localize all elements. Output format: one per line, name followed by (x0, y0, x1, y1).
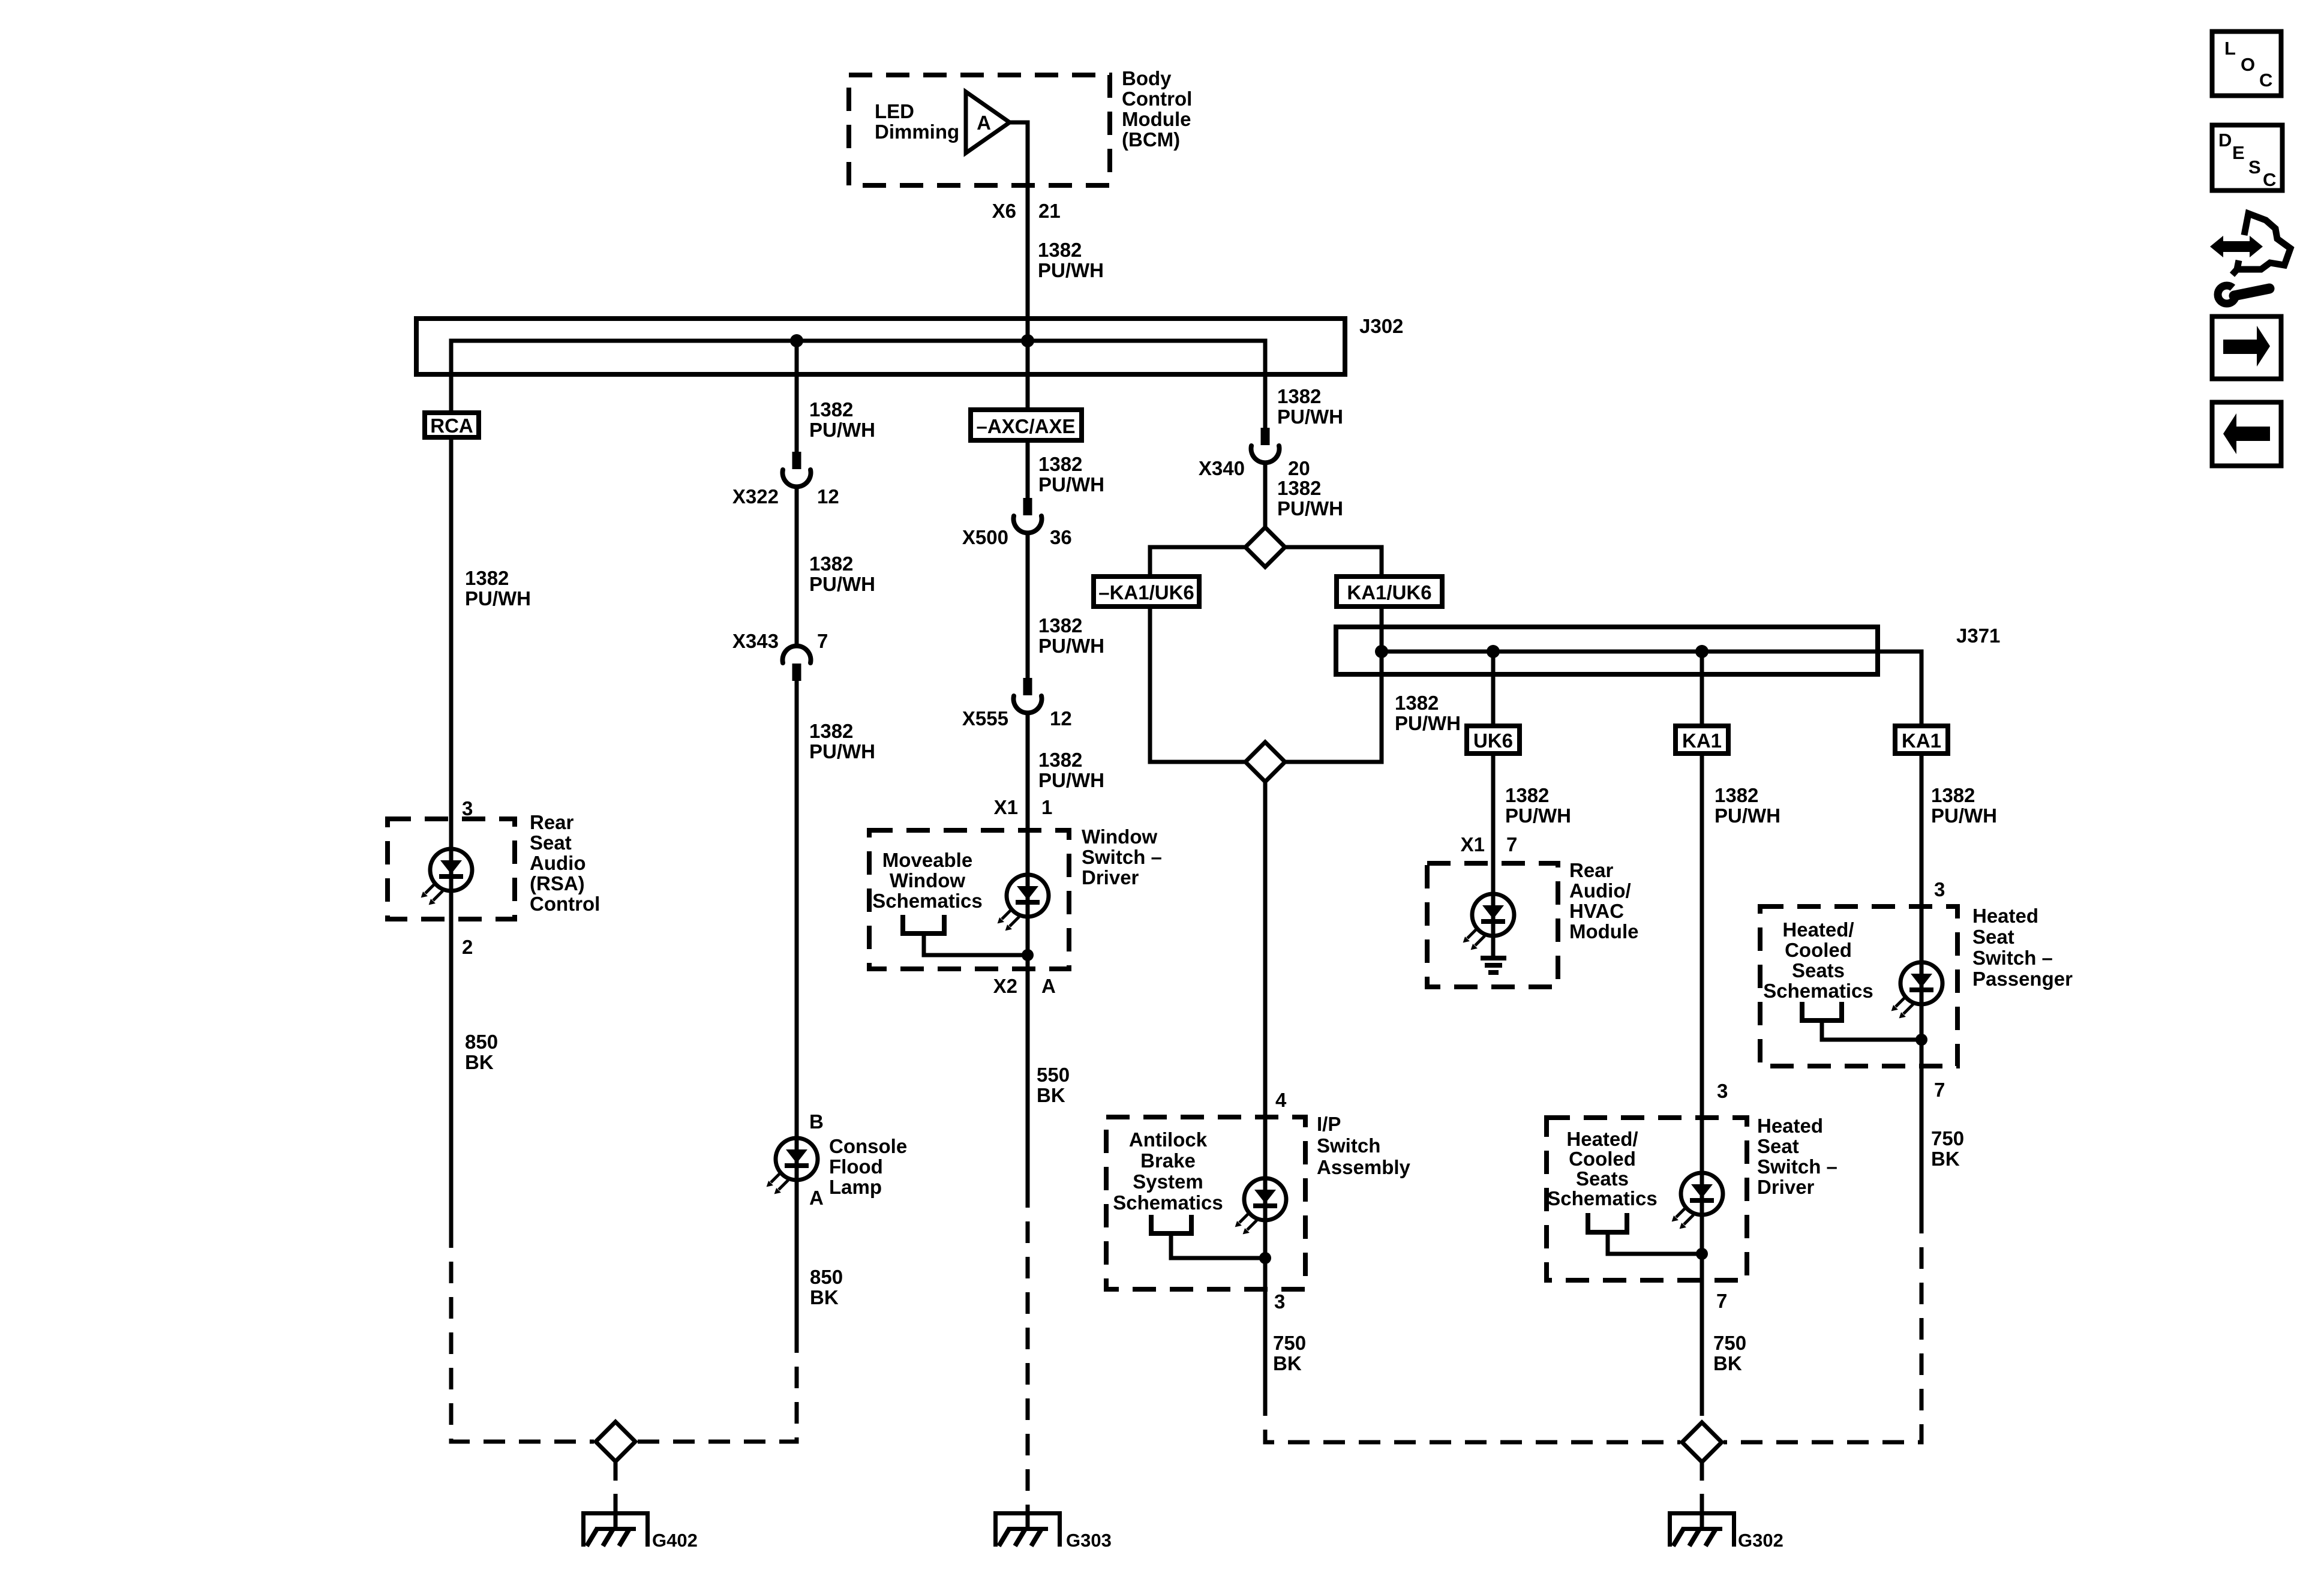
junction node on J302 bus (1021, 334, 1034, 347)
svg-text:G402: G402 (652, 1530, 698, 1551)
wire lower splice to IP switch (1263, 782, 1268, 1178)
hotline repair icon connector outline (2232, 214, 2290, 275)
svg-text:J371: J371 (1956, 625, 2000, 647)
antilock brake system schematics dashed box (1106, 1117, 1305, 1289)
back navigation arrow box (2212, 403, 2281, 466)
svg-text:KA1: KA1 (1902, 730, 1941, 752)
internal chassis ground (1481, 956, 1506, 960)
svg-text:3: 3 (462, 797, 473, 819)
hotline repair icon double arrow (2210, 236, 2263, 257)
bracket wire to LED cathode (1822, 1020, 1921, 1040)
harness tag RCA (425, 413, 479, 437)
body control module BCM dashed box (849, 75, 1110, 185)
connector X322 (783, 452, 811, 487)
wire splice to -KA1/UK6 tag (1150, 547, 1246, 574)
forward navigation arrow box (2212, 317, 2281, 379)
J302 internal bus wire (451, 341, 1265, 428)
svg-text:21: 21 (1038, 200, 1061, 222)
svg-text:12: 12 (817, 485, 839, 508)
svg-text:3: 3 (1717, 1080, 1728, 1102)
LED indicator heated seat driver (1672, 1173, 1723, 1229)
svg-text:B: B (809, 1110, 824, 1133)
junction node (1915, 1034, 1927, 1046)
svg-text:A: A (1041, 975, 1056, 997)
wire below RSA (449, 891, 454, 1226)
junction node (1259, 1252, 1271, 1264)
harness tag -AXC/AXE (971, 410, 1082, 440)
wire J302 to X322 (795, 341, 799, 452)
svg-text:O: O (2241, 54, 2255, 75)
LED indicator heated seat passenger (1891, 962, 1942, 1018)
wire X500 to X555 (1026, 533, 1030, 678)
svg-text:A: A (809, 1187, 824, 1209)
svg-text:X322: X322 (732, 485, 779, 508)
svg-text:KA1: KA1 (1682, 730, 1722, 752)
svg-text:C: C (2263, 169, 2276, 190)
heated cooled seats schematics dashed box passenger (1760, 906, 1957, 1066)
schematic reference bracket (1588, 1213, 1627, 1232)
svg-text:7: 7 (1506, 833, 1517, 855)
harness tag KA1/UK6 (1337, 577, 1442, 607)
svg-text:X2: X2 (993, 975, 1017, 997)
svg-text:850BK: 850BK (810, 1266, 843, 1308)
svg-text:L: L (2224, 38, 2236, 59)
DESC navigation box (2212, 125, 2283, 191)
splice pack J371 box (1336, 627, 1878, 674)
svg-text:RCA: RCA (430, 415, 473, 437)
wire KA1 tag to heated seat switch passenger (1920, 756, 1924, 962)
connector X555 (1014, 678, 1042, 713)
svg-text:C: C (2259, 70, 2272, 91)
ground G302 (1668, 1511, 1736, 1547)
connector X500 (1014, 498, 1042, 533)
LOC navigation box (2212, 32, 2281, 96)
op-amp buffer A (LED dimming driver) (966, 92, 1010, 153)
svg-text:D: D (2218, 130, 2232, 151)
splice pack J302 box (416, 319, 1345, 374)
svg-text:UK6: UK6 (1473, 730, 1513, 752)
harness tag UK6 (1467, 726, 1520, 754)
LED indicator window switch (998, 875, 1049, 930)
bracket wire to LED cathode (924, 933, 1028, 955)
wire -KA1/UK6 tag to lower splice (1150, 609, 1246, 762)
harness tag KA1 (1676, 726, 1728, 754)
svg-text:X340: X340 (1199, 457, 1245, 479)
LED indicator IP switch (1235, 1178, 1286, 1234)
svg-text:20: 20 (1288, 457, 1310, 479)
dashed ground wire to G302 splice (1265, 1394, 1680, 1442)
wire splice to KA1/UK6 tag (1284, 547, 1382, 574)
dashed ground wire to G402 splice (637, 1331, 797, 1442)
svg-text:3: 3 (1934, 878, 1945, 900)
hotline repair icon wrench (2218, 286, 2236, 304)
svg-text:7: 7 (817, 630, 828, 652)
wire J371 to UK6 tag (1491, 652, 1496, 724)
wire X555 to window switch (1026, 713, 1030, 875)
svg-text:G302: G302 (1738, 1530, 1783, 1551)
console flood lamp LED (767, 1138, 818, 1194)
wire J302 to AXC tag (1026, 341, 1030, 407)
harness tag KA1 passenger (1895, 726, 1948, 754)
harness tag -KA1/UK6 (1094, 577, 1199, 607)
svg-text:J302: J302 (1359, 315, 1403, 337)
wire X343 to console flood lamp (795, 681, 799, 1138)
dashed wire to G302 splice (1724, 1212, 1921, 1442)
wire X322 to X343 (795, 487, 799, 646)
wire heated seat driver down (1700, 1214, 1704, 1394)
svg-text:A: A (977, 112, 991, 134)
svg-text:1: 1 (1041, 796, 1052, 818)
svg-text:7: 7 (1934, 1079, 1945, 1101)
splice diamond lower (1245, 742, 1285, 782)
svg-text:G303: G303 (1066, 1530, 1112, 1551)
wire splice to ground G402 (614, 1461, 618, 1512)
svg-text:750BK: 750BK (1273, 1332, 1306, 1374)
svg-text:X1: X1 (994, 796, 1018, 818)
wire LED to internal ground (1491, 935, 1496, 956)
dashed wire to G302 splice (1700, 1394, 1704, 1422)
junction node on J371 bus (1695, 645, 1709, 658)
svg-text:–AXC/AXE: –AXC/AXE (976, 415, 1075, 437)
svg-text:E: E (2232, 142, 2245, 163)
svg-text:850BK: 850BK (465, 1031, 498, 1073)
wire RCA down (449, 440, 454, 849)
svg-text:2: 2 (462, 936, 473, 958)
junction node (1022, 949, 1034, 961)
connector X340 (1251, 428, 1280, 463)
svg-text:S: S (2248, 157, 2261, 178)
bracket wire to LED cathode (1171, 1233, 1265, 1258)
wire J371 to KA1 tag (1700, 652, 1704, 724)
svg-text:550BK: 550BK (1037, 1064, 1070, 1106)
LED indicator RSA (421, 849, 472, 905)
ground G402 (581, 1511, 650, 1547)
rear audio HVAC module dashed box (1427, 863, 1558, 987)
hotline repair icon connector stub (2237, 260, 2239, 269)
svg-text:X6: X6 (992, 200, 1016, 222)
wire IP switch down (1263, 1220, 1268, 1394)
splice diamond upper (1245, 527, 1285, 567)
connector X343 (783, 646, 811, 681)
svg-text:X500: X500 (962, 526, 1008, 548)
svg-text:3: 3 (1274, 1290, 1285, 1313)
wire UK6 tag to rear audio module (1491, 756, 1496, 894)
svg-text:12: 12 (1050, 707, 1072, 730)
wire heated seat passenger down (1920, 1004, 1924, 1212)
svg-text:750BK: 750BK (1713, 1332, 1746, 1374)
svg-text:7: 7 (1716, 1290, 1727, 1312)
svg-text:–KA1/UK6: –KA1/UK6 (1098, 581, 1194, 604)
wire below console flood lamp (795, 1180, 799, 1331)
wire tag to X500 (1026, 443, 1030, 498)
schematic reference bracket (1151, 1215, 1191, 1233)
wire KA1/UK6 tag through J371 to lower splice (1284, 609, 1382, 762)
splice diamond G402 (596, 1422, 635, 1461)
splice diamond G302 (1682, 1422, 1722, 1462)
LED indicator rear audio module (1463, 894, 1514, 950)
dashed ground wire to G303 (1026, 1186, 1030, 1512)
svg-text:X343: X343 (732, 630, 779, 652)
dashed ground wire to G402 splice (451, 1226, 594, 1442)
wire LED down through box (1026, 916, 1030, 1186)
bracket wire to LED cathode (1608, 1232, 1702, 1254)
wire X340 to splice diamond (1263, 463, 1268, 528)
junction node on J371 bus (1375, 645, 1388, 658)
svg-text:750BK: 750BK (1931, 1127, 1964, 1170)
window switch driver dashed box (869, 830, 1069, 969)
heated cooled seats schematics dashed box driver (1547, 1118, 1747, 1280)
svg-text:X1: X1 (1461, 833, 1485, 855)
schematic reference bracket (1802, 1002, 1842, 1020)
junction node (1696, 1248, 1708, 1260)
J371 internal bus wire (1382, 652, 1921, 724)
schematic reference bracket (903, 915, 944, 933)
wire KA1 tag to heated seat switch driver (1700, 756, 1704, 1173)
svg-text:KA1/UK6: KA1/UK6 (1347, 581, 1431, 604)
rear seat audio RSA control dashed box (388, 819, 515, 919)
svg-text:X555: X555 (962, 707, 1008, 730)
svg-text:4: 4 (1275, 1089, 1287, 1111)
wire BCM output to J302 (1008, 122, 1028, 341)
ground G303 (993, 1511, 1062, 1547)
wire splice to ground G302 (1700, 1462, 1704, 1512)
svg-text:36: 36 (1050, 526, 1072, 548)
junction node on J302 bus (790, 334, 803, 347)
junction node on J371 bus (1487, 645, 1500, 658)
